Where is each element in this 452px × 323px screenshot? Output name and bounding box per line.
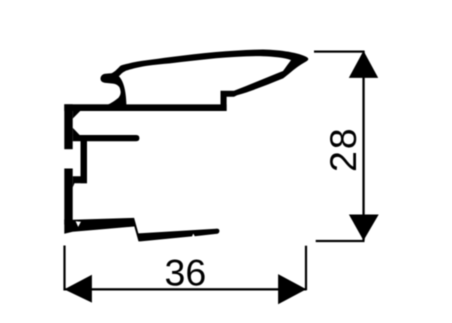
profile left wall upper segment xyxy=(64,104,72,149)
bottom wall with step xyxy=(64,218,219,242)
28 dim: top arrowhead xyxy=(349,51,378,78)
pocket bottom chamfer xyxy=(73,128,80,136)
28 dim: top extension line xyxy=(314,51,365,53)
svg-text:28: 28 xyxy=(322,127,364,172)
white slot under fin xyxy=(119,56,291,104)
svg-text:36: 36 xyxy=(165,252,207,294)
profile top wall xyxy=(64,104,226,111)
36 dim: right extension line xyxy=(305,246,307,291)
36 dim: right arrowhead xyxy=(278,274,306,304)
middle arm xyxy=(73,135,140,141)
36 dim: horizontal dimension line xyxy=(64,288,306,290)
28 dim: bottom arrowhead xyxy=(349,215,379,241)
fin blade with curl and step (black) xyxy=(101,50,309,112)
28 dim: bottom extension line xyxy=(316,240,365,242)
36 dim: left extension line xyxy=(63,246,65,291)
notch on first bottom segment xyxy=(76,221,81,227)
pocket top chamfer xyxy=(73,111,81,119)
36 dim: left arrowhead xyxy=(64,275,92,303)
28 dim: vertical dimension line xyxy=(362,51,364,241)
profile left wall lower segment xyxy=(64,169,72,225)
channel bottom piece xyxy=(73,176,87,187)
inner vertical wall xyxy=(81,140,88,183)
